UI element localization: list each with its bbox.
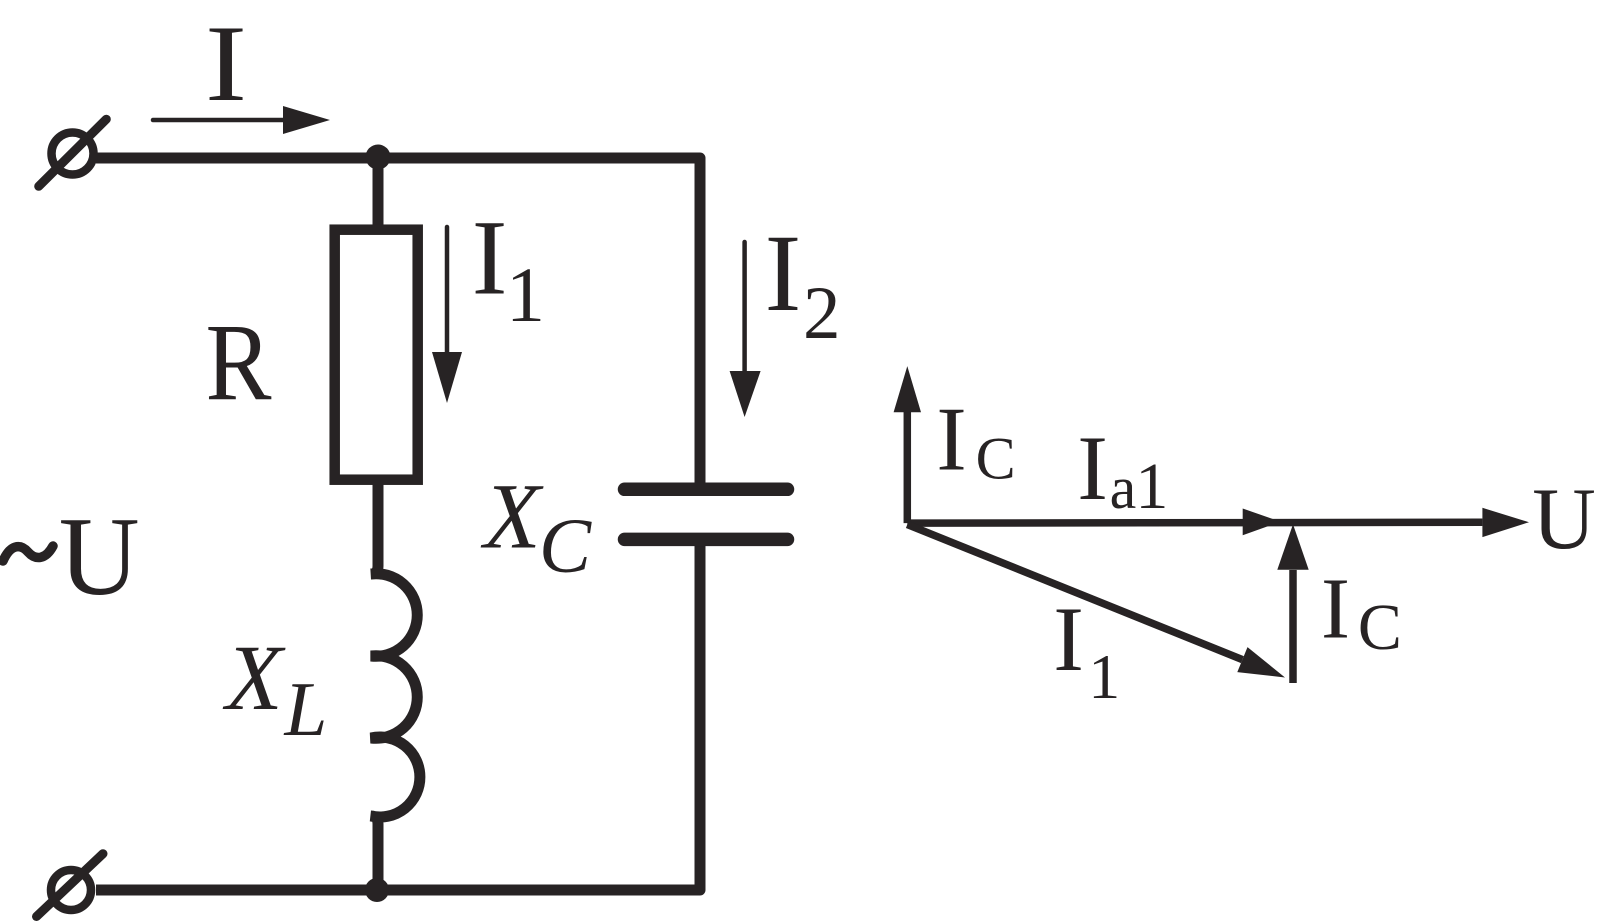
svg-text:U: U [1532,471,1596,568]
svg-text:I: I [1321,560,1350,657]
svg-text:1: 1 [1088,641,1120,712]
svg-text:L: L [284,666,328,752]
svg-text:1: 1 [1135,450,1168,523]
svg-text:C: C [976,426,1016,492]
svg-text:a: a [1110,455,1137,521]
svg-text:1: 1 [506,251,545,338]
svg-text:U: U [59,495,140,619]
svg-text:I: I [1053,588,1084,690]
svg-text:I: I [936,389,966,490]
svg-text:I: I [472,200,508,318]
svg-text:2: 2 [803,272,841,355]
svg-text:X: X [480,466,544,569]
svg-text:R: R [206,301,273,423]
svg-text:C: C [539,502,592,589]
svg-text:X: X [222,627,286,730]
svg-text:I: I [765,212,802,334]
svg-text:I: I [1077,417,1108,519]
svg-text:I: I [205,3,247,124]
svg-text:C: C [1358,591,1402,664]
